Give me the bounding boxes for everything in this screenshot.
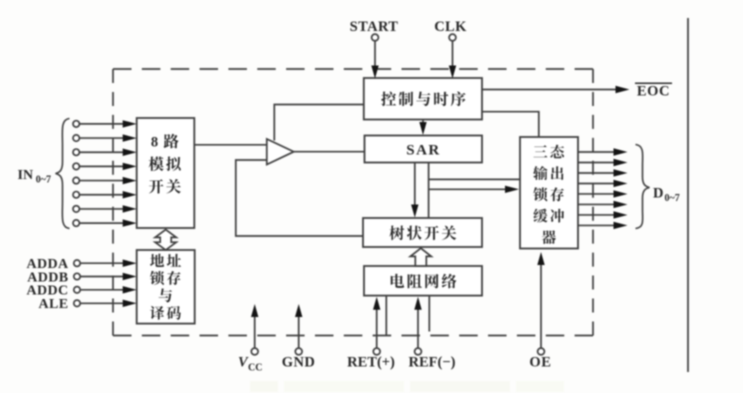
block U4 resistor-network 电阻网络 — [364, 266, 482, 296]
arrowhead START into U1 — [371, 66, 378, 79]
wire U1 to U2 — [422, 120, 424, 127]
comparator A1 — [267, 139, 294, 165]
block U2 SAR — [365, 136, 483, 163]
wire SAR branch to U7 lower — [429, 188, 506, 190]
svg-text:CC: CC — [248, 363, 262, 374]
terminal OE — [538, 348, 545, 355]
output lines D0-D7 — [578, 151, 614, 153]
svg-text:0~7: 0~7 — [665, 193, 680, 204]
terminal RET(+) — [373, 348, 380, 355]
wire SAR to U3 second — [428, 163, 430, 219]
svg-text:RET(+): RET(+) — [347, 355, 395, 371]
svg-text:D: D — [653, 186, 663, 202]
wire SAR to U3 — [414, 163, 416, 207]
wire U5 output to comparator — [194, 144, 266, 146]
chip boundary dashed border (bottom) — [113, 335, 593, 337]
chip boundary dashed border (left) — [112, 69, 114, 336]
terminal REF(-) — [415, 348, 422, 355]
svg-text:ALE: ALE — [39, 297, 69, 312]
block U5 8-channel analog switch 8路模拟开关 — [137, 118, 195, 228]
block U7 tri-state output latch buffer 三态输出锁存缓冲器 — [520, 137, 578, 249]
svg-text:CLK: CLK — [434, 19, 467, 35]
svg-text:OE: OE — [529, 355, 551, 371]
hollow arrow U4 to U3 — [410, 248, 431, 266]
block U6 address latch and decoder 地址锁存与译码 — [137, 250, 195, 324]
faint caption remnant — [250, 381, 564, 392]
svg-text:IN: IN — [18, 168, 34, 183]
terminal GND — [295, 348, 302, 355]
vertical page rule — [687, 18, 689, 372]
arrowhead into U7 — [505, 186, 519, 193]
arrowhead into SAR — [419, 122, 426, 135]
svg-text:0~7: 0~7 — [36, 175, 51, 186]
svg-text:EOC: EOC — [637, 84, 670, 100]
block U1 control-and-timing 控制与时序 — [364, 78, 482, 120]
wire comparator output to SAR — [294, 151, 365, 153]
wire comparator feedback to U1 — [274, 105, 364, 141]
wire U4 stub right — [428, 296, 430, 332]
wire U3 to comparator — [236, 160, 363, 236]
svg-text:START: START — [350, 19, 399, 35]
svg-text:GND: GND — [282, 355, 315, 371]
arrowhead EOC — [616, 86, 630, 93]
chip boundary dashed border (top) — [113, 68, 593, 70]
wire U4 stub left — [385, 296, 387, 336]
wire CLK to U1 — [452, 41, 454, 70]
arrowhead SAR into U3 — [411, 205, 418, 218]
brace for D0-7 — [636, 145, 650, 229]
hollow double arrow U5-U6 — [155, 230, 176, 250]
block U3 tree-switch 树状开关 — [363, 218, 482, 247]
wire START to U1 — [374, 41, 376, 68]
wire U1 to U7 — [482, 112, 539, 137]
input lines IN0-IN7 with terminals — [73, 121, 79, 127]
wire U1 to EOC — [482, 89, 617, 91]
svg-text:8: 8 — [151, 134, 158, 150]
terminal VCC — [251, 348, 258, 355]
svg-text:REF(−): REF(−) — [409, 355, 456, 371]
brace for IN0-7 — [56, 119, 70, 229]
arrowhead CLK into U1 — [449, 66, 456, 79]
chip boundary dashed border (right) — [592, 69, 594, 336]
wire SAR branch to U7 upper — [429, 178, 520, 180]
svg-text:SAR: SAR — [406, 143, 441, 159]
